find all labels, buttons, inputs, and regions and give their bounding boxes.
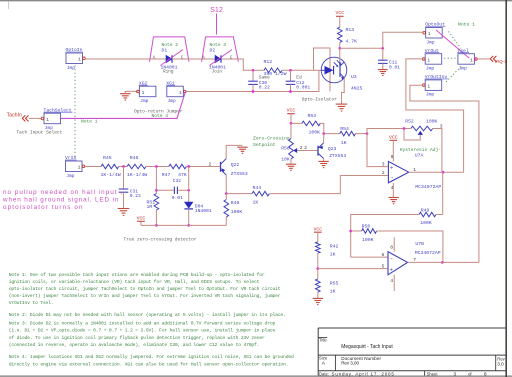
pin number 6 (U7B): [382, 252, 385, 258]
wire U7A output: [409, 171, 464, 173]
junction: [187, 189, 190, 192]
svg-text:C: C: [181, 55, 184, 60]
annotation text no pullup: [2, 189, 122, 211]
wire U7B output: [408, 261, 479, 263]
wire U7A out down to R49: [442, 172, 444, 214]
wire R47 to Q22 base: [186, 166, 220, 168]
svg-text:Jmp: Jmp: [426, 92, 435, 98]
potentiometer R56 10K: [281, 139, 297, 163]
wire VrOutInv to U7B out: [410, 85, 479, 262]
power VCC (detector rail): [137, 216, 146, 222]
wire R49 left to pin6 node: [351, 215, 419, 258]
note text Zero-Crossing: [253, 136, 290, 142]
svg-text:5: 5: [382, 264, 385, 270]
wire node to D04: [188, 167, 190, 203]
resistor R45: [101, 155, 121, 178]
svg-text:1: 1: [428, 31, 431, 37]
capacitor C31: [119, 189, 141, 200]
svg-text:Jmp: Jmp: [459, 66, 468, 72]
svg-text:U7A: U7A: [415, 153, 424, 159]
wire VCC stub to rail: [140, 221, 142, 225]
svg-text:Note 4: Jumper locations XG1 a: Note 4: Jumper locations XG1 and XG2 nor…: [9, 354, 294, 360]
diode D2 1N4001: [209, 55, 226, 74]
svg-text:2: 2: [382, 170, 385, 176]
wire R52 wiper loop: [404, 129, 420, 141]
svg-text:1: 1: [427, 84, 430, 90]
wire R46 to R47: [146, 166, 169, 168]
svg-text:1K: 1K: [253, 199, 259, 205]
note text Hysteresis Adj.: [400, 147, 441, 153]
svg-text:Jmp: Jmp: [67, 65, 76, 71]
svg-text:Tach Input Select: Tach Input Select: [16, 130, 62, 136]
wire D04 to bottom rail: [188, 209, 190, 226]
ground (C11): [378, 70, 388, 76]
pin number 5 (U7B): [382, 264, 385, 270]
ground (U7A pin4): [388, 198, 398, 204]
diode D1 1N4001: [161, 55, 178, 74]
wire R52 right to U7A out: [433, 129, 442, 173]
net S12: [210, 5, 223, 35]
svg-text:S12: S12: [210, 5, 223, 14]
pin number 2 (Q22 base): [209, 161, 212, 167]
svg-text:True zero-crossing detector: True zero-crossing detector: [124, 237, 197, 243]
svg-text:R55: R55: [330, 280, 339, 286]
svg-text:R44: R44: [253, 185, 262, 191]
opto-isolator U3 4N25: [321, 57, 362, 91]
note text Note 4 (jumpers): [152, 113, 169, 119]
page border right: [505, 0, 507, 377]
wire C30 top lead: [252, 70, 254, 81]
wire R54 to pin3 node: [356, 133, 368, 135]
junction: [441, 261, 444, 264]
svg-text:4N25: 4N25: [351, 85, 363, 91]
svg-text:ignition coils, or variable-re: ignition coils, or variable-reluctance (…: [9, 279, 260, 285]
svg-text:8: 8: [390, 245, 393, 251]
junction: [403, 127, 406, 130]
annotation strikeout D1: [161, 50, 184, 66]
svg-text:MC34072AP: MC34072AP: [415, 250, 441, 256]
svg-text:XG1: XG1: [166, 80, 175, 86]
wire C31 bottom lead: [123, 192, 125, 208]
wire opto anode lead: [314, 69, 322, 71]
svg-text:3: 3: [454, 371, 457, 376]
svg-text:Jmp: Jmp: [168, 98, 177, 104]
svg-text:8: 8: [391, 154, 394, 160]
svg-text:1K: 1K: [341, 140, 347, 146]
annotation dotted VrOut-Tsel: [444, 57, 456, 59]
wire Q22 collector to R48: [225, 194, 227, 200]
connector TachIn: [22, 115, 28, 121]
capacitor C12: [286, 75, 311, 91]
jumper OptoIn: [66, 47, 86, 71]
svg-text:0.22: 0.22: [130, 193, 141, 199]
wire U7B pin 8 stub: [393, 237, 395, 251]
svg-text:Q22: Q22: [231, 162, 240, 168]
svg-text:Zero-Crossing: Zero-Crossing: [253, 136, 290, 142]
text Opto-return Jumper: [134, 108, 183, 114]
wire node to R53: [291, 122, 302, 124]
wire pin6 node to R50: [351, 230, 362, 232]
resistor R48: [224, 200, 242, 218]
page border top: [0, 0, 512, 2]
pin number 8 (U7B): [390, 245, 393, 251]
wire Q22 collector to R44: [226, 193, 252, 195]
wire VCC to R53 node: [290, 114, 292, 124]
svg-text:VCC: VCC: [287, 108, 296, 114]
svg-text:Note 1: Note 1: [81, 118, 98, 124]
svg-text:(i.e. D1 + D2 + Vf_opto_diode: (i.e. D1 + D2 + Vf_opto_diode = 0.7 + 0.…: [9, 328, 276, 334]
svg-text:2: 2: [209, 161, 212, 167]
wire R52 left lead: [404, 128, 411, 130]
svg-text:Join: Join: [212, 69, 223, 74]
wire D2 to R12 rail: [221, 59, 264, 70]
junction: [252, 69, 255, 72]
svg-text:+: +: [390, 166, 393, 172]
svg-text:Sunday, April 17, 2005: Sunday, April 17, 2005: [332, 371, 395, 376]
svg-text:1K: 1K: [330, 251, 336, 257]
svg-text:R12: R12: [264, 59, 273, 65]
wire R50 to U7B out: [377, 231, 443, 262]
jumper TachSelect: [41, 107, 72, 131]
jumper VrOutInv: [422, 74, 447, 98]
jumper OptoOut: [423, 22, 446, 46]
wire pin3 node down to U7A: [367, 134, 388, 167]
wire node to U7B pin5: [318, 268, 388, 270]
text True zero-crossing detector: [124, 237, 197, 243]
page border bottom: [0, 375, 512, 377]
svg-text:R48: R48: [231, 200, 240, 206]
wire D1 to D2: [172, 58, 215, 60]
annotation dotted jumper select vertical: [74, 66, 76, 160]
svg-text:1: 1: [413, 167, 416, 173]
net label IRQ-1: [495, 59, 507, 64]
svg-text:no pullup needed on hall input: no pullup needed on hall input ,: [3, 189, 122, 196]
wire U7B pin 4 stub: [393, 275, 395, 291]
svg-text:4.7K: 4.7K: [346, 39, 358, 45]
svg-text:Q23: Q23: [328, 146, 337, 152]
svg-text:OptoOut: OptoOut: [425, 22, 445, 28]
ground (opto emitter): [336, 104, 348, 111]
svg-text:Note 2: Diode D1 may not be ne: Note 2: Diode D1 may not be needed with …: [9, 312, 286, 318]
wire node to R54: [324, 133, 340, 135]
capacitor C11: [378, 59, 400, 70]
resistor R54: [340, 126, 356, 146]
wire VCC node to R56: [290, 123, 292, 138]
designator D1: [162, 48, 168, 54]
wire opto node to C11 node: [340, 47, 383, 49]
svg-text:R50: R50: [362, 223, 371, 229]
svg-text:Jmp: Jmp: [140, 98, 149, 104]
wire R13 to opto collector node: [339, 43, 341, 49]
svg-text:Note 3: Note 3: [210, 42, 227, 48]
svg-text:Note 1: Note 1: [458, 22, 475, 28]
op-amp U7B MC34072AP: [388, 241, 441, 275]
junction: [442, 171, 445, 174]
note text Note 1 (top right): [458, 22, 475, 28]
pin number 2 (U7A): [382, 170, 385, 176]
svg-text:Note 1: One of two possible ta: Note 1: One of two possible tach input o…: [9, 272, 265, 278]
ground (XG2): [120, 94, 131, 100]
wire VCC to R13: [339, 16, 341, 27]
junction: [316, 267, 319, 270]
svg-text:Rev 3,00: Rev 3,00: [341, 361, 359, 366]
svg-text:Ed: Ed: [296, 75, 302, 81]
resistor R12: [264, 59, 287, 77]
wire R44 to U7A pin2: [269, 176, 388, 194]
wire XG1 to opto cathode rail: [186, 70, 319, 91]
wire C30 bottom lead: [252, 84, 254, 91]
resistor R49: [419, 207, 436, 226]
svg-text:Jmp: Jmp: [426, 39, 435, 45]
wire R42 to node: [317, 253, 319, 268]
capacitor C32: [172, 178, 183, 201]
svg-text:100K: 100K: [309, 129, 321, 135]
wire TachIn to TachSelect: [29, 117, 42, 119]
junction: [155, 189, 158, 192]
annotation magenta net TachSelect to XG1: [61, 92, 186, 119]
junction: [252, 90, 255, 93]
svg-text:1: 1: [78, 57, 81, 63]
ground (Q22): [237, 147, 247, 153]
junction: [155, 165, 158, 168]
wire opto emitter to ground: [342, 78, 345, 104]
junction: [322, 132, 325, 135]
svg-text:4: 4: [390, 278, 393, 284]
resistor R50: [362, 223, 377, 243]
wire node to R51: [155, 167, 157, 194]
svg-text:3.0: 3.0: [497, 361, 504, 366]
notes text block: [9, 272, 294, 367]
wire Q23 collector: [323, 134, 325, 143]
pin number 2 (Q23 base): [304, 145, 307, 151]
ground (R56): [286, 164, 296, 170]
svg-text:R46: R46: [130, 155, 139, 161]
svg-text:R42: R42: [330, 243, 339, 249]
svg-text:VrOutInv to Tsel.: VrOutInv to Tsel.: [9, 300, 54, 306]
pin number 3 (U7A): [382, 161, 385, 167]
wire R49 right: [436, 214, 443, 216]
junction: [225, 192, 228, 195]
annotation strikeout D2: [210, 50, 233, 66]
note text Note 3 (D2): [210, 42, 227, 48]
potentiometer R52 100K Hysteresis: [405, 119, 437, 135]
svg-text:100K: 100K: [420, 220, 432, 226]
resistor R47: [162, 164, 187, 178]
transistor Q22 ZTX553: [221, 159, 248, 177]
junction: [289, 69, 292, 72]
svg-text:1: 1: [179, 90, 182, 96]
svg-text:Hysteresis Adj-: Hysteresis Adj-: [400, 147, 441, 153]
svg-text:opto-isolator tach circuit, ju: opto-isolator tach circuit, jumper TachS…: [9, 286, 281, 292]
text Tach Input Select: [16, 130, 62, 136]
svg-text:U7B: U7B: [415, 241, 424, 247]
pin number 7 (U7B): [413, 257, 416, 263]
wire U7A pin 8: [392, 140, 394, 161]
svg-text:A: A: [202, 55, 205, 60]
junction: [155, 224, 158, 227]
resistor R46: [127, 155, 147, 178]
wire pin3 node up to R52: [367, 129, 404, 134]
junction: [338, 47, 341, 50]
svg-text:Setpoint: Setpoint: [253, 142, 276, 148]
svg-text:Date:: Date:: [319, 371, 329, 376]
svg-text:4: 4: [391, 185, 394, 191]
svg-text:100K: 100K: [231, 209, 243, 215]
svg-text:100K: 100K: [426, 119, 437, 125]
junction: [187, 165, 190, 168]
wire C11 bottom lead: [382, 63, 384, 69]
ground (Q23): [318, 161, 328, 167]
svg-text:R53: R53: [308, 113, 317, 119]
wire VrIn to R45: [85, 166, 101, 168]
note text Note 1 (tach select): [81, 118, 98, 124]
svg-text:0.22: 0.22: [259, 84, 270, 90]
wire OptoIn to D1: [85, 58, 166, 60]
wire VrOut to U7A out: [406, 59, 464, 172]
title block: [318, 328, 506, 376]
wire opto anode loop: [314, 48, 331, 92]
svg-text:6: 6: [382, 252, 385, 258]
pin label C (D2): [230, 55, 233, 60]
power VCC (R42): [313, 226, 322, 232]
resistor R53: [302, 113, 321, 135]
annotation dotted Tsel-VrOutInv: [445, 67, 462, 84]
svg-text:VCC: VCC: [389, 135, 398, 141]
svg-text:R54: R54: [340, 126, 349, 132]
svg-text:Jmp: Jmp: [66, 173, 75, 179]
svg-text:C11: C11: [389, 59, 398, 65]
svg-text:optoisolator turns on: optoisolator turns on: [3, 204, 83, 211]
diode D04 1N4001: [184, 202, 211, 214]
svg-text:Title: Title: [319, 337, 327, 342]
junction: [290, 122, 293, 125]
resistor R44: [252, 185, 269, 205]
svg-text:when hall ground signal, LED i: when hall ground signal, LED in: [2, 197, 119, 204]
wire C12 bottom lead: [290, 84, 292, 91]
pin label A (D1): [153, 55, 156, 60]
svg-text:0.01: 0.01: [389, 65, 400, 71]
junction: [187, 224, 190, 227]
wire R56 wiper to Q23 base: [297, 150, 317, 152]
power VCC (setpoint): [287, 108, 296, 114]
op-amp U7A MC34072AP: [388, 153, 441, 190]
svg-text:0.001: 0.001: [296, 84, 310, 90]
svg-text:Opto-Isolator: Opto-Isolator: [302, 96, 337, 102]
svg-text:ZTX553: ZTX553: [329, 153, 346, 159]
wire Tsel to IRQ: [477, 58, 490, 60]
svg-text:Note 3: Diode D2 is normally a: Note 3: Diode D2 is normally a 1N4001 in…: [9, 320, 276, 326]
svg-text:Megasquirt - Tach Input: Megasquirt - Tach Input: [341, 344, 393, 350]
svg-text:VCC: VCC: [335, 10, 344, 16]
net label TachIn: [7, 112, 22, 118]
wire detector bottom rail: [141, 224, 226, 226]
wire R51 to bottom rail: [155, 210, 157, 225]
junction: [349, 230, 352, 233]
svg-text:VCC: VCC: [313, 226, 322, 232]
svg-text:1K-1/4W: 1K-1/4W: [101, 172, 121, 178]
resistor R55: [316, 279, 339, 295]
svg-text:1: 1: [470, 57, 473, 63]
pin label C (D1): [181, 55, 184, 60]
junction: [289, 90, 292, 93]
svg-text:1K-1/4W: 1K-1/4W: [127, 172, 147, 178]
svg-text:100K: 100K: [362, 237, 374, 243]
svg-text:C32: C32: [173, 178, 182, 184]
power VCC (R13): [335, 10, 344, 16]
svg-text:3: 3: [440, 123, 443, 129]
svg-text:1N4001: 1N4001: [195, 208, 212, 214]
svg-text:1: 1: [46, 117, 49, 123]
junction: [381, 47, 384, 50]
svg-text:ZTX553: ZTX553: [231, 171, 248, 177]
pin number 8 (U7A): [391, 154, 394, 160]
svg-text:D1: D1: [162, 48, 168, 54]
svg-text:1: 1: [78, 165, 81, 171]
pin number 4 (U7B): [390, 278, 393, 284]
svg-text:1M: 1M: [147, 204, 153, 210]
svg-text:-: -: [390, 175, 394, 182]
svg-text:Sheet: Sheet: [427, 371, 439, 376]
svg-text:directly to engine via externa: directly to engine via external connecti…: [9, 361, 289, 367]
svg-text:TachSelect: TachSelect: [44, 107, 72, 113]
designator D2: [210, 48, 216, 54]
svg-text:C: C: [230, 55, 233, 60]
svg-text:Same: Same: [259, 75, 270, 81]
wire Q22 emitter to ground: [226, 145, 242, 158]
svg-text:1K: 1K: [330, 288, 336, 294]
pin label A (D2): [202, 55, 205, 60]
junction: [474, 58, 476, 60]
ground (R55): [313, 298, 323, 304]
svg-text:U3: U3: [351, 74, 357, 80]
jumper VrIn: [65, 155, 85, 179]
wire C32 left: [156, 189, 173, 191]
svg-text:XG2: XG2: [139, 80, 148, 86]
svg-text:1: 1: [142, 90, 145, 96]
svg-text:of diode. To use in ignition c: of diode. To use in ignition coil primar…: [9, 335, 265, 341]
jumper Tsel: [457, 48, 477, 72]
svg-text:TachIn: TachIn: [7, 112, 22, 118]
note text Setpoint: [253, 142, 276, 148]
svg-text:3: 3: [382, 161, 385, 167]
junction: [122, 165, 125, 168]
resistor R51: [147, 194, 159, 211]
wire pin6 node to U7B: [351, 256, 388, 258]
jumper VrOut: [422, 48, 441, 72]
annotation dotted OptoOut-Tsel: [449, 32, 462, 49]
svg-text:MC34072AP: MC34072AP: [415, 184, 441, 190]
wire C11 top lead: [382, 48, 384, 60]
pin number 1 (U7A): [413, 167, 416, 173]
wire opto collector: [339, 48, 341, 62]
svg-text:2: 2: [300, 145, 303, 151]
annotation trapezoid D2: [202, 37, 239, 62]
pin number 4 (U7A): [391, 185, 394, 191]
svg-text:R49: R49: [421, 207, 430, 213]
connector IRQ-1: [490, 56, 496, 62]
svg-text:0.01: 0.01: [172, 195, 183, 201]
junction: [366, 132, 369, 135]
svg-text:R56: R56: [281, 145, 290, 151]
wire R56 to ground: [290, 159, 292, 164]
wire R12 to opto anode side: [282, 69, 314, 71]
wire R48 to bottom rail: [225, 217, 227, 225]
wire U7A pin 4: [392, 183, 394, 198]
pin number 3 (R52): [440, 123, 443, 129]
wire C32 right: [178, 189, 189, 191]
wire C12 top lead: [290, 70, 292, 81]
svg-text:10K: 10K: [281, 157, 290, 163]
